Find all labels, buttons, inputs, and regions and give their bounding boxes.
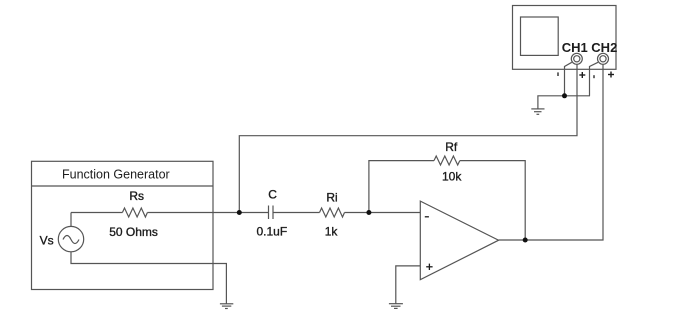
CH2 plus sign bbox=[608, 72, 614, 78]
ground G1 bbox=[531, 109, 544, 114]
connector CH1 jack bbox=[571, 53, 582, 64]
wire: Rs to capacitor left plate bbox=[147, 212, 268, 214]
svg-text:1k: 1k bbox=[325, 225, 339, 239]
wire: Rf to output node bbox=[460, 161, 525, 240]
junction output node bbox=[523, 238, 528, 243]
wire: node B up to Rf feedback bbox=[369, 161, 434, 213]
junction node B bbox=[366, 210, 371, 215]
op-amp plus input sign bbox=[426, 264, 432, 270]
junction node A bbox=[237, 210, 242, 215]
wire: Vs bottom lead to ground G2 bbox=[71, 252, 226, 304]
wire: CH2 minus lead down to ground bus bbox=[590, 62, 599, 96]
wire: op-amp output to CH2 bbox=[499, 59, 603, 240]
svg-text:0.1uF: 0.1uF bbox=[257, 225, 288, 239]
svg-text:10k: 10k bbox=[442, 170, 462, 184]
svg-text:50 Ohms: 50 Ohms bbox=[109, 225, 158, 239]
source Vs sine symbol bbox=[63, 236, 79, 244]
svg-text:Ri: Ri bbox=[326, 191, 337, 205]
CH2 minus tick bbox=[593, 75, 595, 78]
ground G3 bbox=[389, 304, 403, 309]
wire: Ri to op-amp inverting input bbox=[345, 212, 421, 214]
source Vs circle bbox=[58, 226, 83, 251]
svg-text:Rs: Rs bbox=[129, 189, 144, 203]
resistor Ri bbox=[320, 208, 345, 217]
function generator box bbox=[32, 161, 214, 289]
op-amp U1 triangle bbox=[420, 201, 498, 280]
ground G2 bbox=[220, 304, 233, 309]
wire: CH1 minus lead down to ground junction bbox=[565, 62, 572, 96]
oscilloscope screen bbox=[521, 17, 559, 55]
svg-text:CH2: CH2 bbox=[591, 40, 617, 55]
connector CH2 jack bbox=[598, 53, 609, 64]
svg-text:CH1: CH1 bbox=[562, 40, 588, 55]
resistor Rf bbox=[434, 156, 460, 165]
junction ground bus node bbox=[562, 93, 567, 98]
capacitor C plates bbox=[268, 206, 270, 220]
wire: op-amp non-inverting input to ground G3 bbox=[396, 266, 421, 304]
oscilloscope box bbox=[513, 6, 617, 70]
CH1 minus tick bbox=[557, 72, 559, 76]
resistor Rs bbox=[122, 208, 147, 217]
wire: Vs top lead bbox=[70, 213, 72, 227]
svg-text:Function Generator: Function Generator bbox=[62, 168, 170, 182]
op-amp minus input sign bbox=[425, 216, 429, 218]
function generator title divider bbox=[32, 185, 214, 187]
svg-text:C: C bbox=[268, 188, 277, 202]
CH1 plus sign bbox=[579, 72, 585, 78]
wire: capacitor to Ri bbox=[273, 212, 320, 214]
svg-text:Vs: Vs bbox=[40, 234, 54, 248]
wire: main horizontal left of Rs bbox=[71, 212, 122, 214]
svg-text:Rf: Rf bbox=[445, 140, 458, 154]
wire: node A up and over to CH1 bbox=[239, 59, 577, 213]
wire: ground bus to G1 bbox=[538, 96, 590, 109]
